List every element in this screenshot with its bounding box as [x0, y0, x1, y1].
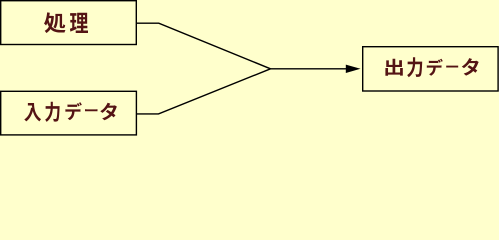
wire from 処理 to junction	[136, 23, 270, 69]
output box 出力データ	[363, 47, 498, 91]
arrow wire from junction to 出力データ	[271, 65, 361, 73]
process box 処理	[1, 1, 137, 45]
wire from 入力データ to junction	[136, 69, 270, 114]
label 入力データ	[24, 102, 117, 122]
label 出力データ	[385, 57, 478, 77]
input box 入力データ	[1, 91, 137, 135]
label 処理	[44, 12, 88, 33]
